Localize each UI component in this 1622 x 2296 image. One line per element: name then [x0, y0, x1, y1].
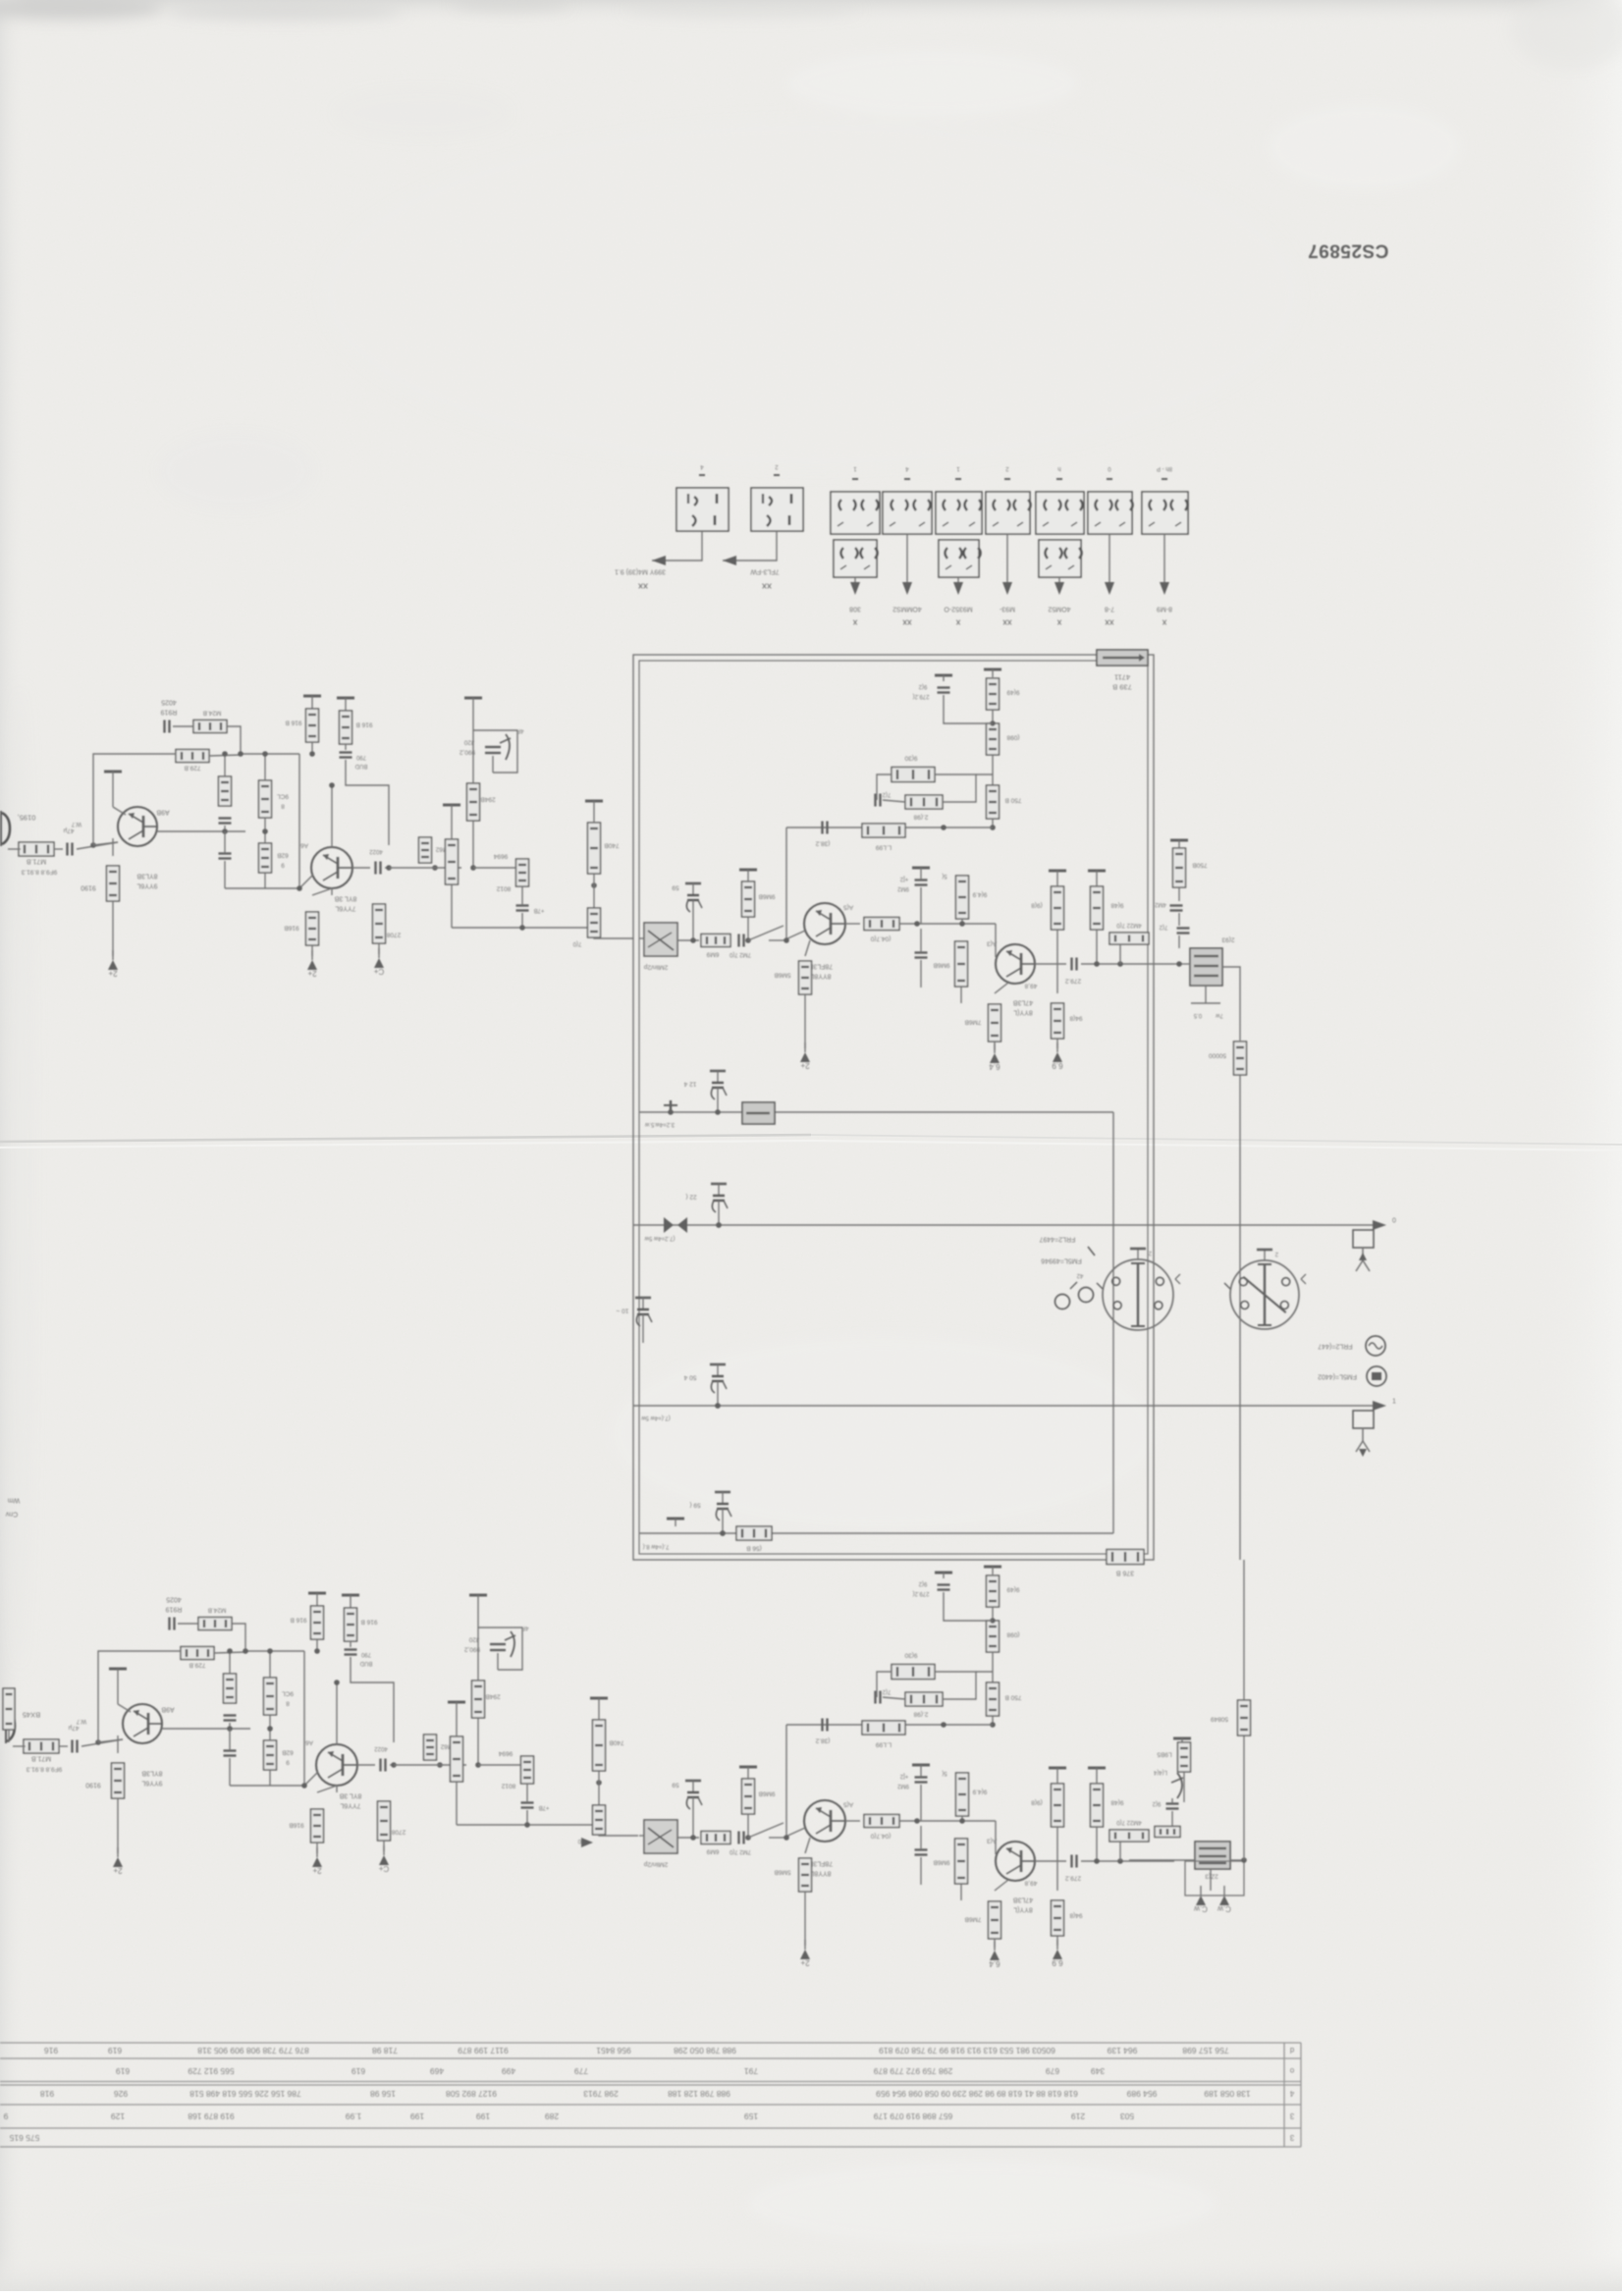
- rail tick mid: [448, 1702, 465, 1712]
- T2 base wire: [304, 1772, 318, 1786]
- phono sockets small circles: [1055, 1282, 1094, 1309]
- svg-text:916 B: 916 B: [356, 721, 373, 728]
- svg-text:2Z(3: 2Z(3: [1205, 1873, 1218, 1880]
- svg-text:50849: 50849: [1211, 1716, 1228, 1723]
- svg-text:791: 791: [744, 2066, 758, 2076]
- tick right col: [590, 1698, 608, 1708]
- svg-text:XX: XX: [902, 618, 912, 625]
- svg-text:916 B: 916 B: [361, 1619, 378, 1626]
- feedback wire up: [93, 754, 157, 845]
- capacitor C952: [350, 1641, 351, 1647]
- switch S7 lower contact box: [1039, 540, 1082, 577]
- coupling capacitor C902: [73, 1740, 78, 1753]
- svg-text:8-M9: 8-M9: [1157, 606, 1172, 613]
- svg-text:756 157 698: 756 157 698: [1182, 2046, 1229, 2056]
- svg-text:918: 918: [40, 2089, 54, 2099]
- svg-text:FRL2=(447: FRL2=(447: [1318, 1343, 1352, 1350]
- resistor R97 out: [390, 1764, 394, 1766]
- svg-text:A(5: A(5: [843, 1801, 854, 1808]
- svg-text:8YL 3B: 8YL 3B: [334, 895, 356, 902]
- emitter resistor R91x: [117, 1735, 119, 1753]
- svg-text:(7.(=4w 5w: (7.(=4w 5w: [641, 1415, 671, 1420]
- FET buffer symbol: [472, 708, 474, 730]
- svg-text:(9(8: (9(8: [1031, 902, 1043, 909]
- label S4: [892, 606, 922, 613]
- input shunt resistor BX45: [3, 1688, 15, 1730]
- long bus vertical x1263: [1239, 1224, 1241, 1560]
- feedback left vertical: [785, 828, 787, 940]
- feedback capacitor C912: [170, 1618, 175, 1630]
- table row y2133: [40, 2089, 1251, 2099]
- svg-text:+[2: +[2: [899, 876, 908, 881]
- svg-text:503: 503: [1120, 2111, 1134, 2121]
- svg-text:Wm: Wm: [8, 1497, 21, 1504]
- resistor R961: [345, 708, 347, 711]
- svg-text:Cnv: Cnv: [5, 1511, 18, 1518]
- svg-text:4M22 7(0: 4M22 7(0: [1116, 1819, 1142, 1825]
- svg-text:M93-: M93-: [999, 606, 1015, 613]
- switch S7 top tick: [1056, 465, 1062, 479]
- resistor R941: [259, 843, 272, 873]
- transistor T14 circle: [996, 944, 1035, 984]
- svg-text:FM5L=49946: FM5L=49946: [1041, 1257, 1082, 1264]
- pre resistor: [742, 1779, 755, 1814]
- svg-text:9M6B: 9M6B: [759, 1790, 776, 1797]
- table id column chars: [1289, 2046, 1294, 2142]
- resistor R931 tall: [259, 780, 272, 818]
- bus vertical lower: [1243, 1735, 1245, 1860]
- svg-text:BX45: BX45: [23, 1710, 40, 1719]
- series resistor ch2: [701, 1832, 730, 1844]
- svg-text:7M2 7(0: 7M2 7(0: [729, 1848, 751, 1854]
- feedback chain resistors x3: [984, 669, 1001, 675]
- svg-text:9CL: 9CL: [277, 793, 289, 800]
- arrow from S2: [723, 556, 736, 565]
- svg-text:7(2: 7(2: [882, 791, 891, 797]
- svg-text:4711: 4711: [1114, 672, 1130, 681]
- emitter ground: [117, 1798, 119, 1853]
- tap transistor ch2 pre: [685, 1781, 702, 1814]
- svg-text:X: X: [955, 618, 960, 625]
- entry wiring: [639, 1835, 644, 1837]
- svg-text:L.L99: L.L99: [875, 1741, 892, 1748]
- svg-text:7YY6L: 7YY6L: [335, 905, 355, 912]
- resistor mid tall: [451, 1736, 463, 1782]
- svg-text:BUD: BUD: [354, 763, 367, 769]
- resistor right col tall: [593, 1720, 606, 1771]
- T3 base lead: [784, 1828, 805, 1838]
- switch S9 contact box: [1142, 492, 1188, 534]
- switch S3 contact box: [831, 492, 880, 534]
- svg-text:729.B: 729.B: [189, 1662, 206, 1669]
- right resistor col2: [1091, 886, 1104, 930]
- svg-text:7YY6L: 7YY6L: [340, 1802, 360, 1809]
- lower jack grounds: [1210, 1869, 1212, 1891]
- bus wire y1248 to terminal: [633, 1224, 1379, 1226]
- svg-text:7.(=4w 8.(: 7.(=4w 8.(: [643, 1543, 670, 1549]
- entry trimmer ch2: [644, 1820, 677, 1853]
- terminal symbol upper: [1353, 1230, 1374, 1271]
- arrow from S4: [902, 582, 912, 595]
- feedback top cap: [935, 1573, 952, 1578]
- resistor under FET: [467, 783, 480, 821]
- svg-text:C+: C+: [378, 1864, 389, 1873]
- rail resistor R95 tick: [303, 696, 321, 706]
- switch S9 top tick: [1157, 465, 1172, 479]
- lower out rail tick: [1173, 1738, 1191, 1746]
- series cap ch1: [739, 934, 744, 947]
- stage1 wiring: [98, 1739, 123, 1742]
- svg-text:7w: 7w: [1215, 1012, 1222, 1018]
- svg-text:469: 469: [430, 2066, 444, 2076]
- svg-text:6.4: 6.4: [989, 1959, 1000, 1968]
- svg-text:0.5: 0.5: [1193, 1012, 1202, 1018]
- svg-text:(38.2: (38.2: [815, 840, 830, 847]
- arrow to tape left: [652, 556, 666, 565]
- switch S4 top tick: [904, 465, 910, 479]
- node mid: [432, 865, 438, 871]
- svg-text:CS25897: CS25897: [1308, 240, 1389, 260]
- svg-text:9694: 9694: [498, 1750, 513, 1757]
- svg-text:0195,: 0195,: [18, 813, 36, 822]
- svg-text:279.2(: 279.2(: [912, 1590, 929, 1596]
- svg-text:62B: 62B: [282, 1749, 294, 1756]
- output cap: [352, 867, 370, 869]
- svg-text:94(8: 94(8: [1069, 1912, 1082, 1919]
- bias bottom wire: [225, 887, 299, 889]
- svg-text:2708: 2708: [386, 932, 401, 938]
- feedback resistor boxes: [892, 768, 935, 782]
- svg-text:XX: XX: [1002, 618, 1012, 625]
- svg-text:2+: 2+: [108, 969, 117, 978]
- svg-text:298 759 972 779 879: 298 759 972 779 879: [874, 2066, 953, 2076]
- T4 base wire: [995, 924, 997, 957]
- label S6: [999, 606, 1015, 613]
- svg-text:4025: 4025: [166, 1596, 182, 1603]
- svg-text:(098: (098: [1006, 734, 1019, 741]
- svg-text:618 618 88 41 618 89 98 298 23: 618 618 88 41 618 89 98 298 239 09 058 0…: [876, 2089, 1078, 2099]
- wire input: [8, 848, 21, 850]
- wire from S4: [906, 534, 908, 589]
- arrow from S5: [953, 582, 963, 595]
- T2 collector wire: [331, 785, 333, 847]
- bus y1133 left cluster: [664, 1100, 677, 1112]
- wire into box: [594, 937, 633, 938]
- svg-text:6M9: 6M9: [706, 1848, 719, 1855]
- svg-text:M24.B: M24.B: [208, 1607, 227, 1614]
- resistor pair horizontal: [1109, 1830, 1149, 1842]
- svg-text:964 139: 964 139: [1107, 2046, 1137, 2056]
- T4 emitter ground: [989, 1043, 1000, 1071]
- feedback resistor Rb: [181, 1647, 214, 1660]
- resistor R952: [316, 1603, 318, 1606]
- phono label rows: [1040, 1236, 1076, 1243]
- T3 out resistor: [845, 923, 860, 925]
- svg-text:X: X: [1056, 618, 1061, 625]
- right flank resistor 4: [1052, 1900, 1064, 1936]
- feedback label: [161, 699, 177, 706]
- potentiometer on box top edge: [1097, 650, 1148, 666]
- cluster cap: [516, 906, 529, 911]
- rail resistor R96 tick: [337, 698, 354, 708]
- svg-text:9(49: 9(49: [1006, 1586, 1019, 1593]
- svg-text:M24.B: M24.B: [203, 710, 222, 717]
- svg-text:7FL3-FW: 7FL3-FW: [750, 568, 780, 575]
- svg-text:L(4(4: L(4(4: [1153, 1769, 1167, 1775]
- svg-text:2+: 2+: [800, 1061, 809, 1070]
- svg-text:575 615: 575 615: [9, 2133, 39, 2143]
- transistor T21 BC149: [123, 1704, 162, 1743]
- margin note left: [8, 1497, 21, 1504]
- label S7: [1048, 606, 1070, 613]
- arrow from S3: [850, 582, 860, 595]
- svg-text:619: 619: [108, 2046, 122, 2056]
- svg-text:988 798 050 298: 988 798 050 298: [674, 2046, 736, 2056]
- node input: [95, 1739, 101, 1745]
- svg-text:12 4: 12 4: [683, 1081, 696, 1088]
- T3 base lead: [784, 931, 805, 940]
- lower entry junction: [581, 1838, 593, 1847]
- table row y2156: [3, 2111, 1134, 2121]
- svg-text:5M6B: 5M6B: [775, 1869, 791, 1876]
- bus tap transistor 12 4: [710, 1071, 727, 1104]
- svg-text:565 912 729: 565 912 729: [188, 2066, 235, 2076]
- emitter ground: [112, 901, 114, 956]
- switch S1 contact box: [676, 488, 729, 531]
- svg-text:9(4.9: 9(4.9: [972, 891, 987, 898]
- cap C mid2: [219, 854, 232, 859]
- T2 base wire: [299, 875, 313, 888]
- svg-text:740B: 740B: [609, 1739, 623, 1746]
- svg-text:2Mlin/2p: 2Mlin/2p: [643, 964, 668, 971]
- out rail tick: [1170, 840, 1188, 848]
- lower cap pair: [1166, 1804, 1179, 1809]
- cap column: [912, 868, 930, 874]
- resistor on bus y1562: [736, 1526, 772, 1540]
- coupling capacitor C901: [68, 843, 73, 856]
- svg-text:916: 916: [44, 2046, 58, 2056]
- switch S7 contact box: [1036, 492, 1084, 534]
- svg-text:138 058 189: 138 058 189: [1204, 2089, 1251, 2099]
- collector tick: [109, 1669, 127, 1681]
- bus resistor 50000: [1234, 1041, 1247, 1075]
- svg-text:1.99: 1.99: [345, 2111, 361, 2121]
- svg-text:750 B: 750 B: [1005, 797, 1022, 804]
- flank resistor 1: [956, 1773, 969, 1816]
- svg-text:50000: 50000: [1209, 1052, 1226, 1059]
- cap C mid: [224, 1716, 237, 1721]
- switch S2 top tick: [774, 463, 780, 475]
- resistor right col tall: [588, 823, 601, 874]
- svg-text:9: 9: [3, 2111, 8, 2121]
- transistor T23 BC149 circle: [804, 1800, 845, 1842]
- capacitor C951: [345, 744, 347, 750]
- svg-text:9M6B: 9M6B: [934, 1859, 950, 1866]
- svg-text:0: 0: [1392, 1218, 1396, 1225]
- input jack J1: [1, 811, 10, 846]
- svg-text:9M2: 9M2: [897, 1783, 909, 1789]
- bus tap transistor 22 (: [711, 1184, 728, 1217]
- svg-text:94(8: 94(8: [1069, 1015, 1082, 1022]
- svg-text:9(2: 9(2: [918, 683, 927, 689]
- svg-text:298 7913: 298 7913: [583, 2089, 619, 2099]
- svg-text:+[2: +[2: [899, 1773, 908, 1779]
- drawing number CS25897 (rotated): [1308, 240, 1389, 260]
- svg-text:750B: 750B: [1192, 862, 1207, 869]
- table row y2089: [44, 2046, 1229, 2056]
- stage1 wiring: [93, 842, 118, 845]
- switch S1 top tick: [699, 463, 705, 475]
- horizontal paper fold crease: [0, 1135, 1622, 1150]
- right rail tick 2: [1088, 871, 1106, 879]
- svg-text:L9B5: L9B5: [1157, 1751, 1172, 1758]
- feedback wire up: [98, 1651, 162, 1742]
- entry trimmer ch1: [644, 923, 677, 956]
- svg-text:2+: 2+: [312, 1866, 321, 1875]
- wire from S9: [1163, 534, 1165, 589]
- svg-text:988 798 128 188: 988 798 128 188: [668, 2089, 730, 2099]
- switch S5 contact box: [936, 492, 982, 534]
- bus y1562 left tick: [667, 1519, 684, 1526]
- svg-text:750 B: 750 B: [1005, 1694, 1022, 1701]
- feedback resistor Rb: [176, 750, 209, 763]
- svg-text:9117 199 879: 9117 199 879: [458, 2046, 509, 2056]
- svg-text:59 (: 59 (: [689, 1502, 701, 1509]
- feedback lower line: [786, 1724, 993, 1726]
- lower out wiring: [1129, 1859, 1195, 1861]
- arrow from S7: [1054, 582, 1064, 595]
- svg-text:49,8: 49,8: [1024, 1880, 1037, 1887]
- node input: [90, 842, 96, 848]
- svg-text:6.4: 6.4: [989, 1062, 1000, 1071]
- resistor pair horizontal: [1109, 933, 1149, 944]
- DIN socket B1 center pin bar: [1131, 1262, 1145, 1327]
- bias bottom wire: [230, 1785, 304, 1787]
- svg-text:60503 981 553 613 913 918 99 7: 60503 981 553 613 913 918 99 79 758 079 …: [879, 2046, 1055, 2056]
- right rail tick 2: [1088, 1768, 1106, 1776]
- svg-text:8: 8: [281, 803, 285, 810]
- svg-text:9M6B: 9M6B: [934, 962, 950, 969]
- svg-text:2(93: 2(93: [1221, 936, 1234, 943]
- svg-text:59: 59: [672, 884, 679, 891]
- svg-text:2.(98: 2.(98: [913, 1711, 928, 1718]
- rail resistor R96 tick: [342, 1595, 359, 1605]
- svg-text:5M6B: 5M6B: [775, 972, 791, 979]
- svg-text:h: h: [1057, 465, 1060, 471]
- bus corner vertical x1134: [1112, 1112, 1114, 1533]
- bus wire y1562: [639, 1532, 1113, 1534]
- svg-text:8YY8L: 8YY8L: [810, 1870, 831, 1877]
- terminal arrow 1: [1373, 1401, 1386, 1411]
- arrow from S6: [1002, 582, 1012, 595]
- svg-text:8YL3B: 8YL3B: [141, 1770, 162, 1777]
- T3 emitter resistor: [805, 1838, 810, 1853]
- svg-text:9(4.9: 9(4.9: [972, 1789, 987, 1795]
- svg-text:294B: 294B: [485, 1693, 500, 1700]
- svg-text:XX: XX: [638, 581, 648, 590]
- right flank resistor 3: [1049, 1768, 1066, 1776]
- svg-text:4: 4: [1289, 2089, 1294, 2098]
- bus wire y1133: [639, 1111, 1113, 1113]
- resistor under FET: [472, 1681, 485, 1718]
- svg-text:(9(8: (9(8: [1031, 1799, 1043, 1806]
- svg-text:619: 619: [116, 2066, 130, 2076]
- feedback label: [166, 1596, 182, 1603]
- wire from S1: [652, 531, 702, 561]
- FET buffer tick: [469, 1595, 487, 1605]
- flank resistor 2: [955, 941, 968, 987]
- svg-text:916B: 916B: [284, 925, 298, 932]
- wire input: [13, 1745, 26, 1747]
- svg-text:2+: 2+: [113, 1866, 122, 1875]
- lower jack box outline: [1185, 1861, 1244, 1896]
- svg-text:279.2(: 279.2(: [912, 693, 929, 699]
- svg-text:4022: 4022: [369, 848, 383, 854]
- svg-text:W.7: W.7: [76, 1718, 86, 1724]
- svg-text:279.2: 279.2: [1064, 978, 1081, 985]
- svg-text:956 8451: 956 8451: [596, 2046, 631, 2056]
- transistor T12 BC149: [311, 847, 352, 888]
- DIN socket B2 center pin bar: [1258, 1263, 1271, 1326]
- svg-text:47L3B: 47L3B: [1013, 1896, 1034, 1903]
- svg-text:790: 790: [360, 1651, 371, 1657]
- cluster resistor dark: [521, 1756, 534, 1784]
- lower out resH: [1155, 1827, 1180, 1838]
- collector wire: [117, 1681, 119, 1704]
- wire from S6: [1006, 534, 1008, 589]
- lower link wire: [452, 927, 594, 929]
- T4 base wire: [995, 1821, 997, 1854]
- DIN socket B1 pins: [1112, 1277, 1164, 1308]
- T4 output cap: [1035, 963, 1066, 965]
- svg-text:2+: 2+: [307, 969, 316, 978]
- DIN socket B2 slash: [1243, 1277, 1285, 1312]
- output jack cluster: [1190, 948, 1222, 986]
- resistor on box bottom y1589: [1107, 1550, 1144, 1565]
- right flank ground: [1052, 1042, 1063, 1070]
- svg-text:657 898 919 079 179: 657 898 919 079 179: [874, 2111, 953, 2121]
- feedback wiring: [162, 1650, 181, 1652]
- svg-text:4M2: 4M2: [1155, 901, 1166, 907]
- svg-text:349: 349: [1091, 2066, 1105, 2076]
- output cap: [357, 1764, 375, 1766]
- svg-text:d: d: [1290, 2046, 1294, 2055]
- resistor before box entry: [593, 874, 595, 908]
- rail resistor R95 tick: [308, 1593, 326, 1603]
- flank resistor 2: [955, 1839, 968, 1884]
- arrow from S9: [1160, 582, 1169, 595]
- svg-text:8012: 8012: [501, 1783, 515, 1789]
- svg-text:59: 59: [672, 1782, 679, 1789]
- svg-text:7(2: 7(2: [882, 1688, 891, 1694]
- svg-text:M71.B: M71.B: [27, 858, 47, 865]
- svg-text:739 B: 739 B: [1112, 682, 1132, 691]
- svg-text:9(2: 9(2: [918, 1580, 927, 1586]
- pot label: [1114, 672, 1130, 681]
- lower out resistor: [1178, 1742, 1191, 1772]
- label S9: [1157, 606, 1172, 613]
- series resistor R902: [24, 1739, 59, 1753]
- wire from S2: [723, 531, 777, 561]
- table row y2110: [116, 2066, 1105, 2076]
- svg-text:BUD: BUD: [359, 1660, 372, 1666]
- legend sine source: [1318, 1343, 1352, 1350]
- FET buffer symbol: [477, 1605, 479, 1628]
- switch S2 contact box: [751, 488, 803, 531]
- svg-text:308: 308: [849, 606, 861, 613]
- label S2: [750, 568, 780, 575]
- flank resistor 1: [956, 876, 969, 919]
